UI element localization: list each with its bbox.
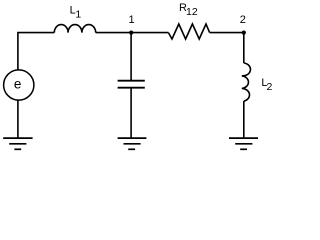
wire resistor to node2 xyxy=(210,32,244,34)
node 2 junction dot xyxy=(242,30,246,34)
source e circle xyxy=(4,70,34,100)
ground (left) xyxy=(3,138,32,149)
inductor L1 xyxy=(54,25,95,33)
wire source to ground xyxy=(17,100,19,137)
capacitor bottom plate xyxy=(118,87,145,89)
resistor R12 xyxy=(168,24,209,39)
svg-text:12: 12 xyxy=(186,6,198,18)
inductor L2 xyxy=(242,63,251,101)
wire top-left corner to L1 xyxy=(18,33,54,70)
capacitor top plate xyxy=(118,80,145,82)
svg-text:e: e xyxy=(14,77,22,92)
svg-text:1: 1 xyxy=(129,14,135,26)
ground (right) xyxy=(229,138,258,149)
wire node2 down to L2 xyxy=(243,33,245,63)
label L2 xyxy=(261,77,272,93)
svg-text:2: 2 xyxy=(240,14,246,26)
svg-text:2: 2 xyxy=(267,81,273,93)
label R12 xyxy=(179,2,198,18)
wire node1 to resistor xyxy=(96,32,169,34)
svg-text:1: 1 xyxy=(75,9,81,21)
wire L2 to ground xyxy=(243,101,245,137)
wire node1 down to capacitor xyxy=(130,33,132,81)
ground (middle) xyxy=(118,138,147,149)
wire capacitor to ground xyxy=(130,89,132,138)
node 1 junction dot xyxy=(129,30,133,34)
label L1 xyxy=(70,4,82,20)
